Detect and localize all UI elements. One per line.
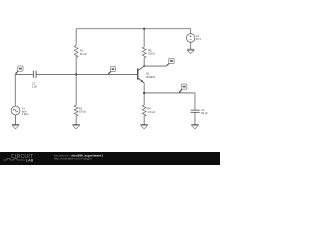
ground under C2 [191, 125, 198, 129]
label R1 91k [80, 48, 87, 56]
wire C2 drop [194, 93, 196, 110]
ground under R6 [140, 125, 147, 129]
svg-text:910 Ω: 910 Ω [148, 52, 155, 56]
svg-text:Q1: Q1 [146, 72, 150, 76]
footer bar [0, 152, 220, 165]
svg-text:1 μF: 1 μF [32, 85, 38, 89]
wire emitter down [143, 83, 145, 105]
wire R2 to ground [75, 116, 77, 125]
svg-text:R5: R5 [148, 48, 152, 52]
wire C1 to base [36, 73, 137, 75]
wire emitter to C2 [144, 92, 195, 94]
svg-text:2N3904: 2N3904 [146, 75, 156, 79]
junction base node [75, 73, 77, 75]
svg-text:LAB: LAB [26, 159, 34, 163]
label V1 sine 1kHz [22, 107, 29, 117]
ground under R2 [72, 125, 79, 129]
wire C2 to ground [194, 112, 196, 124]
svg-text:http://circuitlab.com/c/xdg5tx: http://circuitlab.com/c/xdg5tx [54, 156, 92, 160]
capacitor C2 [191, 110, 200, 112]
wire collector node to flag [144, 65, 167, 67]
label R6 1.5k [147, 107, 155, 114]
wire rail to R1 [75, 29, 77, 46]
capacitor C1 [33, 71, 36, 78]
wire R1 to base node [75, 56, 77, 105]
wire top rail VCC [76, 28, 191, 30]
svg-text:16 V: 16 V [196, 37, 202, 41]
voltage source V2 [186, 34, 195, 43]
svg-text:R1: R1 [80, 48, 84, 52]
flag out node [179, 84, 187, 93]
flag base node [108, 67, 115, 75]
label C2 82uF [201, 108, 208, 115]
footer logo CIRCUIT LAB [3, 154, 34, 162]
resistor R6 emitter [142, 105, 146, 116]
label V2 16V [196, 34, 202, 41]
ground under V1 [12, 125, 19, 129]
voltage source V1 sine [11, 106, 20, 115]
wire input drop to V1 [14, 74, 16, 106]
label Q1 2N3904 [146, 72, 156, 79]
label R5 910 [148, 48, 155, 55]
svg-text:82 μF: 82 μF [201, 111, 208, 115]
junction collector node [143, 65, 145, 67]
wire input corner to C1 [15, 73, 33, 75]
svg-text:10 kΩ: 10 kΩ [79, 110, 86, 114]
wire V1 to ground [15, 115, 17, 125]
svg-text:91 kΩ: 91 kΩ [80, 52, 87, 56]
svg-text:1.5 kΩ: 1.5 kΩ [147, 110, 155, 114]
resistor R2 bottom divider [74, 105, 78, 116]
wire VCC source drop [190, 29, 192, 34]
junction top rail to RC [143, 28, 145, 30]
wire rail to R5 [143, 29, 145, 47]
resistor R1 top divider [74, 45, 78, 57]
resistor R5 collector [142, 47, 146, 58]
wire V2 to ground [190, 42, 192, 49]
flag collector node [166, 58, 174, 65]
label C1 1uF [32, 82, 38, 89]
ground under V2 [187, 49, 194, 53]
junction emitter node [143, 92, 145, 94]
transistor Q1 2N3904 [138, 66, 144, 83]
wire R5 to collector node [143, 58, 145, 66]
wire R6 to ground [143, 116, 145, 125]
flag IN node [15, 66, 23, 74]
label R2 10k [79, 107, 86, 114]
svg-text:1 kHz: 1 kHz [22, 112, 29, 116]
